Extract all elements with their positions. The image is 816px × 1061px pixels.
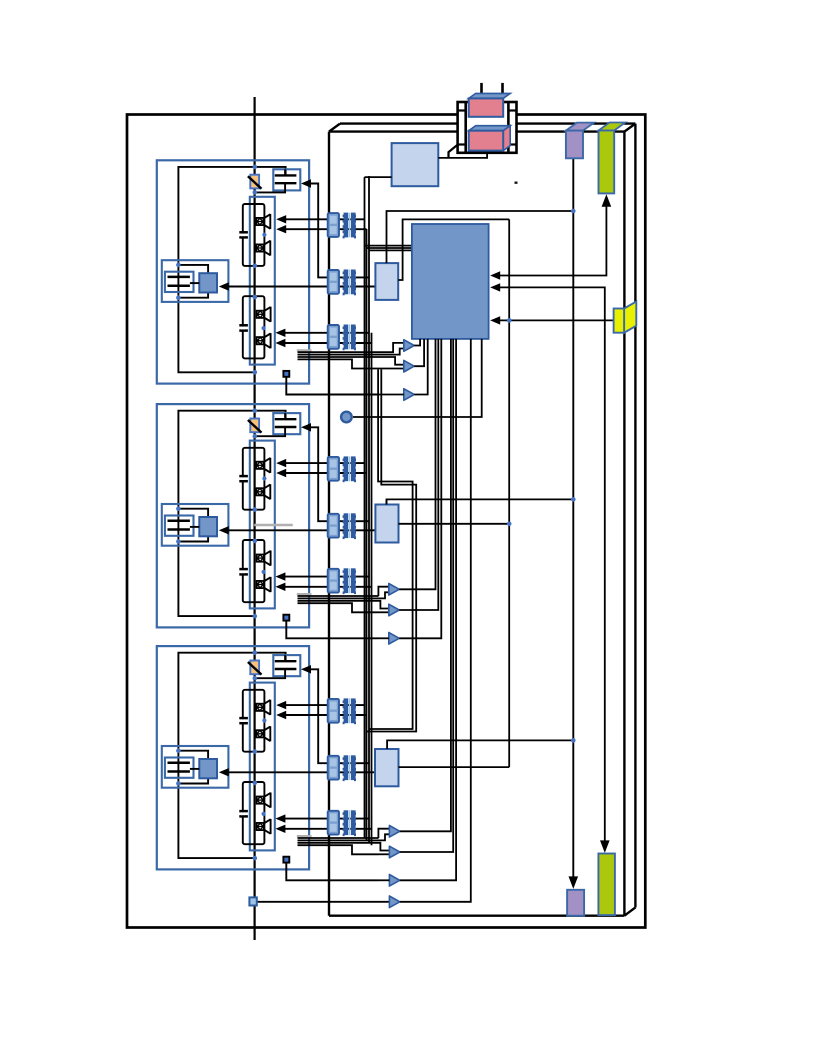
controller U1: [412, 224, 489, 339]
controller input wire 3: [498, 319, 614, 321]
purple indicator bar top: [566, 123, 594, 131]
cabinet 3D box: [329, 130, 624, 132]
axis node bottom: [249, 897, 256, 905]
driver supply trunk: [508, 219, 510, 767]
green indicator bottom: [598, 854, 615, 916]
wires into controller left: [364, 245, 412, 247]
enclosure outer border: [127, 115, 645, 928]
gate power supply driver D3: [375, 749, 399, 786]
auxiliary PSU: [392, 143, 439, 186]
D1 wires: [387, 211, 574, 263]
converter cell 2: [157, 404, 379, 638]
cell 3 gate buffers and fan wiring: [378, 829, 389, 838]
control bus bundle verticals: [364, 177, 366, 838]
green indicator bar top: [599, 123, 626, 131]
machine transformer T1: [457, 101, 518, 153]
cell 1 gate buffers and fan wiring: [379, 343, 404, 352]
bottom feedback buffer row D: [257, 901, 390, 903]
sensor node cell 2: [341, 412, 352, 423]
gate power supply driver D1: [375, 263, 398, 300]
purple indicator bottom: [567, 890, 584, 916]
converter cell 1: [157, 160, 379, 394]
D3 wires: [387, 740, 573, 749]
controller input wire 2: [498, 287, 605, 845]
inter-cell link wires: [369, 370, 413, 730]
yellow 3D plate: [624, 302, 636, 333]
stray mark: [515, 182, 518, 184]
PSU wires: [365, 176, 392, 178]
D2 wires: [386, 499, 388, 504]
grey stub cell2: [254, 524, 293, 526]
controller input wire 1: [498, 205, 606, 276]
cell 2 gate buffers and fan wiring: [378, 587, 388, 596]
phase bus axis: [254, 97, 256, 940]
aux supply vertical: [572, 158, 574, 881]
converter cell 3: [157, 646, 379, 880]
gate power supply driver D2: [375, 505, 398, 543]
